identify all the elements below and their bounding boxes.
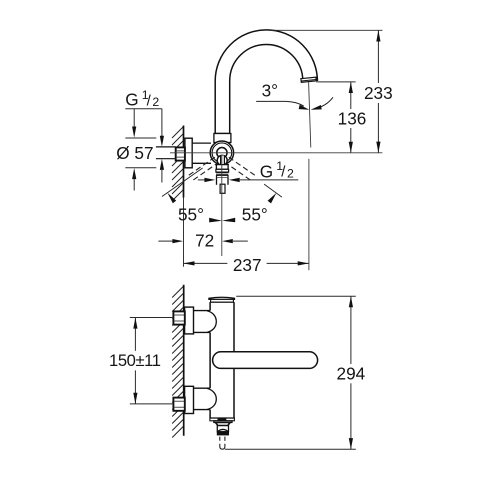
svg-text:3°: 3° [262,81,278,101]
3 deg arc arrows [299,105,322,110]
dimension 294 arrows [349,296,353,449]
dimension 150+-11 arrows [133,318,137,404]
dimension 237 line [183,262,308,264]
diameter 57 extension lines [125,138,156,168]
55 deg extension line right [264,184,282,197]
dimension 136 arrows [349,82,353,153]
outlet shaft [221,155,225,165]
svg-text:G: G [125,90,138,110]
wall line (front view) [183,126,185,198]
extension line from wall plane [183,198,185,267]
hub inner circle [217,148,227,158]
extension line outlet bottom [225,448,356,450]
connector cylinder to hub [192,143,211,163]
svg-text:Ø 57: Ø 57 [116,143,153,163]
wall line (side view) [183,285,185,436]
55 deg arc arrow left outer [167,193,176,204]
svg-text:2: 2 [152,95,159,109]
upper union flange [185,307,194,334]
55 deg arc arrows at centerline (bowtie) [209,218,235,223]
upper union tailpiece [194,311,211,333]
union nut (front view) [176,147,185,160]
bottom outlet nut (dark) [217,432,229,436]
G1/2 pipe dimension lines [161,109,163,183]
svg-text:G: G [260,162,273,182]
body top cap [209,297,235,299]
G1/2 pipe dimension arrows [160,136,164,170]
G1/2 label right [260,159,294,182]
dimension 136 line [350,82,352,153]
spout tip centerline upper [309,82,311,147]
outlet thread rings G1/2 [216,172,228,175]
outlet collar [216,169,229,172]
outlet band [217,175,229,178]
extension line outlet level [316,81,355,83]
horizontal centerline through hub [170,152,382,154]
swivel range dashed lines [188,157,256,181]
G1/2 right underline [240,179,299,181]
upper union nut [173,311,184,324]
riser collar at hub [214,134,231,143]
svg-text:55°: 55° [242,204,268,224]
svg-text:136: 136 [338,108,367,128]
bottom outlet shoulder band [210,418,235,421]
outlet inner tube [220,184,225,193]
dimension 237 arrows [183,261,308,265]
bottom outlet barrel [217,426,228,432]
outlet ball joint [217,155,227,165]
upper port fillet [207,311,216,332]
lever handle [213,352,318,369]
dimension 72 arrows [172,239,232,243]
svg-text:233: 233 [364,83,393,103]
outlet dashed continuation [220,437,225,450]
diameter 57 dimension lines [133,109,135,191]
G1/2 right left shaft [198,179,205,181]
dimension 233 line [377,30,379,153]
vertical centerline below hub [221,155,223,257]
55 deg arc arrow right outer [268,193,277,204]
outlet nipple [217,178,229,185]
svg-text:72: 72 [195,231,214,251]
svg-text:55°: 55° [178,204,204,224]
escutcheon flange [185,138,192,168]
hub outer circle [210,141,233,164]
dimension 294 line [350,296,352,449]
diameter 57 arrows [132,127,136,180]
extension line body top [236,295,356,297]
svg-text:294: 294 [337,364,366,384]
hub middle ring [212,143,232,163]
dimension 233 arrows [376,30,380,153]
bottom outlet plate [214,421,232,423]
wall hatching (side view) [172,286,184,438]
G1/2 right arrows [204,178,239,182]
bottom outlet taper [216,423,231,426]
wall hatching (front view) [172,127,184,202]
G1/2 label top-left [125,88,159,110]
body top ring [211,299,234,302]
spout tube (riser + semicircular arc) [215,30,317,134]
svg-text:150±11: 150±11 [109,351,161,370]
lower port fillet [207,388,216,409]
3 deg arc [256,97,333,107]
lower union flange [185,386,194,413]
svg-text:237: 237 [233,255,262,275]
dimension 72 lines [158,240,247,242]
spout tip centerline lower [308,159,310,270]
55 deg extension line left [162,168,203,197]
G1/2 top-left underline [125,108,162,110]
dimension 150+-11 line [134,318,136,404]
extension line lower union axis [130,403,174,405]
faucet body cylinder [210,302,234,418]
lower union tailpiece [194,388,211,409]
supply pipe stub [156,147,176,159]
outlet yoke block [216,165,228,170]
extension line upper union axis [130,317,174,319]
svg-text:2: 2 [287,167,294,181]
spout outlet cap [301,77,316,82]
lower union nut [173,398,184,411]
extension line spout top [269,29,383,31]
